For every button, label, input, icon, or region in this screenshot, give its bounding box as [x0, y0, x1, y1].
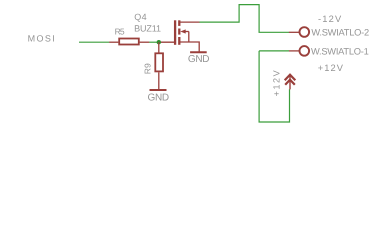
wire R9 to ground (red) — [158, 72, 160, 89]
ground GND under R9 — [150, 89, 167, 91]
svg-text:Q4: Q4 — [134, 12, 147, 22]
node junction dot (green) — [157, 40, 161, 44]
svg-text:R5: R5 — [115, 26, 125, 36]
svg-text:BUZ11: BUZ11 — [134, 23, 161, 33]
svg-text:+12V: +12V — [272, 69, 282, 97]
transistor Q4 drain pin (red) — [180, 21, 200, 23]
wire row2 (green) — [259, 50, 289, 52]
svg-text:W.SWIATLO-2: W.SWIATLO-2 — [311, 28, 369, 38]
transistor Q4 source pin (red) — [180, 42, 199, 52]
svg-text:+12V: +12V — [318, 63, 344, 73]
svg-text:W.SWIATLO-1: W.SWIATLO-1 — [311, 46, 369, 56]
transistor Q4 gate bar — [174, 20, 176, 45]
wire junction down to R9 (red) — [158, 42, 160, 52]
wire pad stub row2 (red) — [289, 50, 299, 52]
wire +12V loop (green) — [259, 51, 289, 122]
transistor Q4 bulk arrow — [180, 29, 185, 33]
transistor Q4 channel segments — [178, 20, 180, 26]
supply +12V arrow — [289, 76, 291, 89]
resistor R9 body — [155, 53, 163, 71]
resistor R5 pin right (red) — [140, 41, 150, 43]
pad circle W.SWIATLO-2 — [300, 27, 310, 37]
pad circle W.SWIATLO-1 — [300, 46, 310, 56]
wire junction to gate (red pin) — [159, 41, 175, 43]
svg-text:GND: GND — [148, 92, 169, 103]
wire drain net (green) with step — [199, 5, 289, 33]
resistor R5 body — [119, 39, 139, 45]
wire MOSI to R5 (net, green) — [79, 41, 109, 43]
svg-text:MOSI: MOSI — [28, 33, 57, 43]
svg-text:GND: GND — [188, 54, 209, 65]
wire pad stub row1 (red) — [289, 31, 299, 33]
svg-text:R9: R9 — [142, 63, 152, 74]
wire R5 to junction (net, green) — [149, 41, 159, 43]
resistor R5 pin left (red) — [109, 41, 118, 43]
svg-text:-12V: -12V — [318, 14, 342, 24]
ground GND under transistor — [190, 51, 207, 53]
